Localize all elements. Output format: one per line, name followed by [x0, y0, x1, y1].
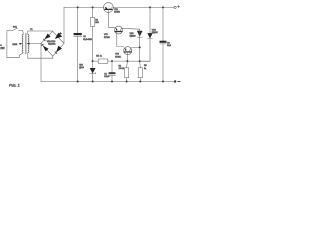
wire bottom-left: [7, 53, 23, 58]
wire into primary top: [22, 31, 25, 35]
node VT3 base bottom: [126, 60, 128, 62]
svg-text:КЦ402А: КЦ402А: [48, 42, 56, 45]
resistor R1: [90, 7, 94, 81]
capacitor C1: [74, 7, 82, 81]
svg-text:C1: C1: [83, 36, 86, 38]
plus label at bridge output: [59, 32, 62, 35]
node C1 top: [77, 6, 79, 8]
svg-text:Рис. 1: Рис. 1: [9, 83, 20, 87]
wire bridge left vertex down to bottom rail: [40, 44, 42, 82]
wire secondary bottom to bridge bottom: [28, 53, 53, 58]
svg-text:КТ361: КТ361: [115, 56, 122, 58]
resistor R2: [93, 59, 150, 63]
node C3 top: [111, 60, 113, 62]
zener label: [79, 65, 85, 70]
wire left vertical from plug loop: [6, 31, 8, 58]
R5 label: [144, 65, 147, 70]
svg-text:КТ805: КТ805: [114, 12, 121, 14]
capacitor C2: [160, 7, 167, 81]
svg-text:1к: 1к: [144, 68, 146, 70]
resistor R4: [125, 61, 129, 81]
diode VD5 middle: [137, 29, 143, 61]
svg-text:С5-16: С5-16: [119, 68, 125, 70]
node R5 top: [139, 60, 141, 62]
tap arrow left: [19, 43, 22, 45]
VD6 label: [152, 30, 159, 35]
capacitor C3: [109, 61, 116, 81]
bridge diode upper-right: [55, 33, 62, 39]
R2 label: [96, 55, 102, 57]
svg-text:Д814: Д814: [79, 67, 85, 69]
svg-text:R5: R5: [144, 65, 147, 67]
VD5 label: [130, 33, 137, 38]
VT3 label: [115, 54, 122, 59]
zener VD7: [90, 68, 96, 74]
wire bridge right vertex up to top rail: [63, 7, 65, 43]
bottom rail: [41, 81, 174, 83]
diode bridge VD1-VD4 diamond: [41, 31, 64, 56]
transistor VT2: [115, 26, 140, 46]
plug X1 mains: [0, 44, 5, 50]
bottom rail nodes: [77, 81, 79, 83]
node VT3 emitter: [139, 46, 141, 48]
svg-text:КД202: КД202: [130, 36, 137, 38]
svg-text:1к: 1к: [100, 55, 102, 57]
svg-text:50,0×50B: 50,0×50B: [83, 38, 92, 41]
top rail: [64, 6, 104, 8]
wire tap to bridge left vertex: [30, 43, 41, 45]
svg-text:100,0: 100,0: [104, 76, 110, 78]
svg-text:R1: R1: [95, 19, 98, 21]
svg-text:220: 220: [0, 47, 5, 50]
bridge diode lower-right: [55, 46, 62, 54]
transistor VT3: [124, 47, 140, 62]
R1 label: [95, 19, 99, 24]
R4 label: [119, 66, 125, 71]
node R1 top: [92, 6, 94, 8]
node C2 top: [162, 6, 164, 8]
svg-text:КТ315: КТ315: [104, 37, 111, 39]
switch SA1: [12, 28, 23, 30]
bridge diode lower-left: [42, 44, 49, 51]
resistor R5: [138, 61, 142, 81]
transistor VT1: [104, 3, 115, 28]
tap arrow right: [27, 43, 30, 45]
transformer T1: [22, 33, 29, 53]
C3 label: [104, 73, 110, 77]
bridge diode upper-left: [44, 34, 51, 41]
C1 label: [83, 36, 92, 41]
output terminal minus: [174, 80, 176, 82]
C2 label: [167, 43, 172, 48]
wire secondary top to bridge apex: [28, 31, 53, 34]
diode VD6: [140, 7, 153, 61]
bridge label: [47, 41, 56, 46]
svg-text:10,0: 10,0: [167, 45, 172, 47]
node VD6 top: [149, 6, 151, 8]
VT1 label: [114, 9, 121, 14]
svg-text:КД202: КД202: [152, 32, 159, 34]
node R2 left: [92, 60, 94, 62]
svg-text:220B: 220B: [12, 44, 17, 46]
VT2 label: [104, 34, 111, 39]
svg-text:300: 300: [95, 22, 99, 24]
output terminal plus: [174, 6, 176, 8]
wire top-left to switch: [7, 30, 12, 32]
